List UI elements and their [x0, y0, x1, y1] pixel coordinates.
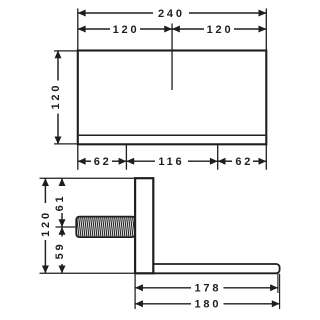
dimension 62 right [218, 156, 267, 168]
wire shelf front edge inner line [79, 134, 265, 136]
svg-text:62: 62 [235, 156, 253, 168]
svg-text:59: 59 [54, 242, 66, 260]
svg-text:120: 120 [113, 24, 140, 36]
side-view wall plate [135, 178, 153, 273]
svg-text:61: 61 [54, 194, 66, 212]
wire extension lines below side view [135, 274, 280, 309]
wire right extension line for width dims [265, 9, 267, 51]
wire vertical center line [171, 24, 173, 91]
wire extension lines below shelf [78, 144, 266, 170]
dimension 62 left [78, 156, 127, 168]
svg-text:120: 120 [207, 24, 234, 36]
svg-text:120: 120 [50, 83, 62, 110]
svg-text:178: 178 [195, 283, 222, 295]
dimension 116 center [126, 156, 217, 168]
dimension 120 height of top view [50, 51, 78, 145]
wire side-view top extension line [40, 177, 136, 179]
svg-text:116: 116 [158, 156, 184, 168]
threaded rod with hatch [74, 217, 138, 238]
svg-text:240: 240 [158, 8, 185, 20]
dimension 120 right half [172, 24, 266, 36]
dimension 61 [54, 178, 66, 227]
wire top-view shelf outline [78, 51, 266, 145]
wire rod axis tick [56, 226, 76, 228]
dimension 180 [135, 299, 280, 311]
side-view shelf arm [153, 264, 279, 273]
svg-text:62: 62 [94, 156, 112, 168]
dimension 240 overall width [78, 8, 266, 20]
dimension 120 side height [40, 178, 52, 273]
dimension 59 [54, 227, 66, 273]
dimension 178 [135, 283, 278, 295]
dimension 120 left half [78, 24, 172, 36]
svg-text:120: 120 [40, 210, 52, 237]
wire left extension line for width dims [77, 9, 79, 51]
wire side-view bottom extension line [40, 272, 136, 274]
svg-text:180: 180 [195, 299, 222, 311]
